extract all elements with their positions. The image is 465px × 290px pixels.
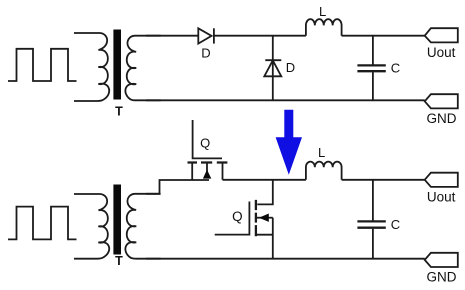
wire diode cathode to inductor xyxy=(214,35,306,37)
transformer T1 primary winding xyxy=(74,33,109,101)
capacitor C (bottom circuit) xyxy=(357,180,385,259)
MOSFET Q (bottom): substrate lead with arrow xyxy=(257,214,273,222)
transformer T1 core xyxy=(113,30,121,100)
wire inductor to Uout (bottom) xyxy=(342,179,425,181)
svg-text:T: T xyxy=(115,254,123,268)
MOSFET Q (top): drain stub xyxy=(222,163,224,180)
svg-text:L: L xyxy=(318,145,325,160)
wire junction down to lower MOSFET drain xyxy=(257,180,273,205)
output port GND (bottom) xyxy=(425,253,458,267)
transformer T2 secondary winding xyxy=(125,194,160,259)
output port GND (top) xyxy=(425,94,458,108)
wire secondary top lead with step up xyxy=(146,180,209,194)
svg-text:D: D xyxy=(201,45,210,60)
capacitor C (top circuit) xyxy=(357,36,385,101)
transformer T2 primary winding xyxy=(74,194,109,259)
MOSFET Q (bottom): source lead xyxy=(257,234,273,236)
MOSFET Q (top, horizontal orientation): gate lead xyxy=(193,120,222,158)
svg-text:L: L xyxy=(319,4,326,19)
blue arrow (replace diodes with MOSFETs) xyxy=(276,110,302,175)
svg-text:Uout: Uout xyxy=(427,190,456,205)
wire MOSFET drain to inductor (top rail of bottom circuit) xyxy=(223,179,306,181)
freewheeling diode D (top circuit) xyxy=(264,36,281,101)
MOSFET Q (top): substrate stub with arrow xyxy=(203,163,211,179)
svg-text:Q: Q xyxy=(200,136,210,151)
transformer T1 secondary winding xyxy=(125,36,160,101)
MOSFET Q (top): channel dashes xyxy=(188,161,228,163)
svg-text:GND: GND xyxy=(427,270,457,285)
output port Uout (bottom) xyxy=(425,173,458,187)
svg-text:T: T xyxy=(115,104,123,118)
svg-text:D: D xyxy=(286,60,295,75)
MOSFET Q (bottom, vertical): gate bar and gate lead xyxy=(215,202,250,235)
MOSFET Q (top): source stub xyxy=(191,163,193,181)
svg-text:C: C xyxy=(391,61,400,76)
square wave source (bottom) xyxy=(8,207,77,240)
wire inductor to Uout xyxy=(342,35,425,37)
square wave source (top) xyxy=(8,49,77,81)
series diode D (top circuit) xyxy=(198,28,214,43)
inductor L (top circuit) xyxy=(306,19,342,36)
svg-text:Q: Q xyxy=(232,209,243,224)
MOSFET Q (bottom): channel dashes xyxy=(255,200,257,236)
svg-text:C: C xyxy=(391,217,400,232)
MOSFET Q (bottom): source/substrate vertical to bottom rail xyxy=(272,218,274,259)
svg-text:Uout: Uout xyxy=(427,45,456,60)
transformer T2 core xyxy=(113,185,121,255)
wire secondary top to diode anode xyxy=(146,35,198,37)
wire secondary bottom (bottom circuit) xyxy=(146,258,425,260)
wire secondary bottom (top circuit) xyxy=(146,99,425,101)
svg-text:GND: GND xyxy=(427,111,457,126)
inductor L (bottom circuit) xyxy=(306,162,342,180)
output port Uout (top) xyxy=(425,28,458,42)
